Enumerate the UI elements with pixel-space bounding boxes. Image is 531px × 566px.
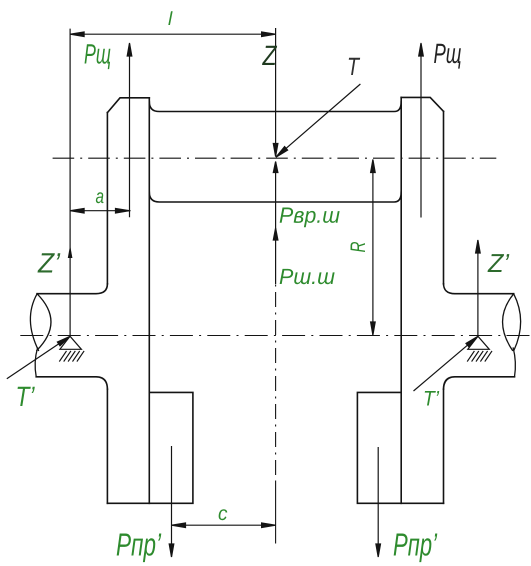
right support (bearing) symbol xyxy=(467,336,492,361)
label T' left xyxy=(18,387,35,406)
label Z' right xyxy=(488,254,510,272)
force arrows Pвр.ш and Pш.ш xyxy=(273,162,278,285)
crankpin (connecting-rod journal) outline xyxy=(149,102,401,202)
label Рщ left xyxy=(85,44,111,69)
left support (bearing) symbol xyxy=(59,336,84,361)
vertical center line of crank xyxy=(275,285,277,544)
dimension a xyxy=(70,208,131,213)
label l xyxy=(168,11,172,25)
right crank web outline xyxy=(401,97,443,503)
force arrow Рпр' right xyxy=(376,447,381,557)
label Рш.ш xyxy=(280,269,335,284)
label T' right xyxy=(425,391,440,405)
left crank web outline xyxy=(107,98,149,504)
force arrow Рпр' left xyxy=(169,446,174,557)
dimension l with extension lines xyxy=(70,29,276,336)
label Z' left xyxy=(37,253,60,272)
label T xyxy=(349,58,360,75)
force arrow P_щ right xyxy=(419,43,424,218)
label R xyxy=(351,242,365,252)
left counterweight block xyxy=(107,392,192,503)
force arrow P_щ left xyxy=(127,43,132,217)
right journal break line xyxy=(503,294,521,377)
force arrow T xyxy=(276,84,361,157)
force arrow Z' left xyxy=(68,245,73,258)
dimension R (crank radius) xyxy=(371,160,376,336)
main journal axis center line xyxy=(20,335,529,337)
label Рпр' left xyxy=(117,533,162,562)
force arrow Z' right xyxy=(476,240,481,336)
left journal break line xyxy=(30,294,51,377)
left main journal outline xyxy=(36,284,107,389)
force arrow T' left xyxy=(7,336,70,378)
right counterweight block xyxy=(357,392,443,503)
crankpin axis center line xyxy=(53,157,497,159)
label c xyxy=(219,509,228,520)
label a xyxy=(96,192,104,203)
force arrow T' right xyxy=(414,336,478,391)
label Рщ right xyxy=(434,44,461,69)
dimension c xyxy=(172,523,276,528)
right main journal outline xyxy=(444,284,515,389)
label Рпр' right xyxy=(394,533,438,562)
force arrow Z xyxy=(273,28,278,157)
label Рвр.ш xyxy=(280,208,340,228)
label Z xyxy=(262,46,277,65)
